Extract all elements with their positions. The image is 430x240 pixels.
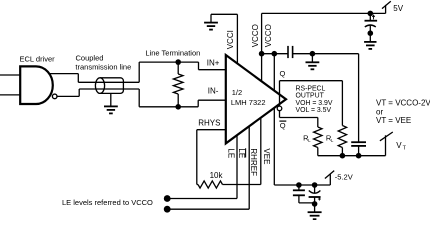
svg-text:transmission line: transmission line — [75, 62, 131, 71]
svg-text:LE levels referred to VCCO: LE levels referred to VCCO — [62, 198, 153, 207]
svg-text:LE: LE — [226, 148, 235, 158]
svg-text:VCCO: VCCO — [251, 24, 260, 47]
svg-text:VCCI: VCCI — [226, 30, 235, 49]
svg-text:RS-PECL: RS-PECL — [296, 85, 326, 92]
svg-text:Q: Q — [280, 69, 286, 78]
svg-text:IN-: IN- — [208, 87, 219, 96]
svg-text:VOL = 3.5V: VOL = 3.5V — [296, 107, 332, 114]
svg-text:ECL driver: ECL driver — [20, 55, 56, 64]
svg-text:-5.2V: -5.2V — [335, 173, 353, 182]
svg-text:VCCO: VCCO — [264, 24, 273, 47]
svg-text:10k: 10k — [210, 171, 224, 180]
svg-text:Q: Q — [280, 121, 286, 130]
svg-text:LE: LE — [237, 148, 246, 158]
svg-text:Coupled: Coupled — [76, 54, 104, 63]
svg-text:5V: 5V — [393, 4, 403, 13]
svg-text:RHREF: RHREF — [249, 148, 258, 176]
svg-text:OUTPUT: OUTPUT — [296, 93, 325, 100]
svg-text:LMH 7322: LMH 7322 — [231, 98, 266, 107]
svg-text:RHYS: RHYS — [198, 119, 220, 128]
svg-text:V: V — [396, 141, 402, 150]
svg-text:VT = VEE: VT = VEE — [376, 116, 411, 125]
svg-text:1/2: 1/2 — [232, 88, 242, 97]
svg-text:or: or — [376, 107, 383, 116]
svg-text:VOH = 3.9V: VOH = 3.9V — [296, 100, 333, 107]
svg-text:IN+: IN+ — [207, 59, 220, 68]
svg-text:VEE: VEE — [262, 148, 271, 164]
svg-text:VT = VCCO-2V: VT = VCCO-2V — [376, 99, 430, 108]
svg-text:Line Termination: Line Termination — [145, 49, 200, 58]
